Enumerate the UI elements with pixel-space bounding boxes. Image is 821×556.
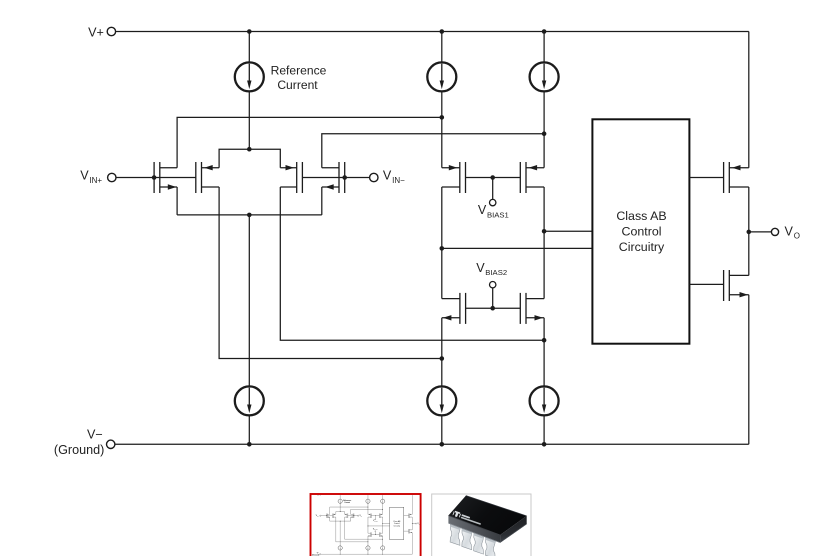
svg-text:Circuitry: Circuitry [619, 240, 665, 254]
wire M9 drain to output node to M10 drain [748, 187, 750, 275]
node M4 drain joins right column [542, 131, 547, 136]
wire left column M7 source to I3 [441, 318, 443, 387]
wire M4 source down [321, 187, 323, 215]
wire M1 drain up and right to left column [177, 117, 442, 167]
svg-text:V+: V+ [88, 25, 104, 39]
node M2 drain joins left column [440, 356, 445, 361]
junction V- rail / tail source [247, 442, 252, 447]
label VIN- [383, 169, 405, 185]
wire I4 to V- rail [543, 415, 545, 444]
transistor M1 input NMOS (VIN+) [154, 162, 177, 193]
node PMOS tail / reference current [247, 147, 252, 152]
wire reference current source to input tail node [248, 91, 250, 149]
current source I3 [427, 386, 456, 415]
wire output node to VO terminal [749, 231, 772, 233]
svg-text:V: V [476, 261, 485, 275]
svg-text:Current: Current [277, 78, 318, 92]
svg-text:V: V [785, 225, 794, 239]
node VBIAS1 [490, 175, 495, 180]
terminal VO [771, 228, 778, 235]
block class AB control circuitry [592, 119, 689, 343]
wire V+ rail to I1 [441, 32, 443, 63]
current source reference [235, 62, 264, 91]
IC body front face [448, 516, 500, 543]
wire left column M5 drain to M7 drain [441, 187, 443, 299]
junction V- rail / I4 [542, 442, 547, 447]
transistor M4 input NMOS (VIN-) [322, 162, 345, 193]
node NMOS tail [247, 213, 252, 218]
wire NMOS pair tail line [177, 214, 322, 216]
wire VBIAS1 stub [492, 178, 494, 200]
junction top rail / current source I1 [440, 29, 445, 34]
current source I4 [530, 386, 559, 415]
terminal V- [107, 440, 115, 448]
junction top rail / reference current [247, 29, 252, 34]
label VO [785, 225, 800, 241]
wire VIN+ to gates of M1 M2 [116, 177, 196, 179]
transistor M5 cascode PMOS left [442, 162, 466, 193]
svg-text:V: V [80, 169, 89, 183]
wire tail current source to V- rail [248, 415, 250, 444]
transistor M7 cascode NMOS left [442, 293, 466, 324]
wire right column to class AB box [544, 230, 592, 232]
wire output NMOS source drop to V- rail [748, 295, 750, 445]
junction V- rail / I3 [440, 442, 445, 447]
wire VBIAS2 stub [492, 288, 494, 308]
svg-text:O: O [794, 232, 800, 241]
junction VIN+ gate node [152, 175, 157, 180]
transistor M2 input PMOS (VIN+) [196, 162, 219, 193]
svg-text:Class AB: Class AB [616, 209, 666, 223]
svg-text:BIAS2: BIAS2 [485, 268, 507, 277]
current source tail (input stage) [235, 386, 264, 415]
svg-text:IN+: IN+ [89, 176, 102, 185]
wire right column M6 drain to M8 drain [543, 187, 545, 299]
IC body top face [448, 496, 526, 535]
terminal VBIAS1 [490, 199, 496, 205]
svg-text:V−: V− [87, 428, 103, 442]
transistor M6 cascode PMOS right [520, 162, 544, 193]
junction VIN- gate node [342, 175, 347, 180]
svg-text:BIAS1: BIAS1 [487, 210, 509, 219]
wire NMOS tail down to tail current source [248, 215, 250, 387]
transistor M10 output NMOS [724, 270, 749, 301]
wire I3 to V- rail [441, 415, 443, 444]
thumbnail 2: IC package photo [432, 494, 531, 556]
terminal V+ [107, 27, 115, 35]
wire M3 drain down and right to right column [280, 187, 544, 340]
terminal VIN- [370, 173, 378, 181]
IC body right face [500, 516, 527, 543]
wire right column M8 source to I4 [543, 318, 545, 387]
node M1 drain joins left column [440, 115, 445, 120]
wire I2 down right cascode column [543, 91, 545, 167]
current source I2 [530, 62, 559, 91]
transistor M9 output PMOS [724, 162, 749, 193]
transistor M3 input PMOS (VIN-) [280, 162, 302, 193]
wire VIN- to gates of M3 M4 [302, 177, 369, 179]
wire V- rail [115, 443, 749, 445]
transistor M8 cascode NMOS right [520, 293, 544, 324]
wire M2 drain down and right to left column [219, 187, 442, 359]
wire top rail right drop to output PMOS source [748, 32, 750, 168]
TI logo on package [452, 510, 482, 525]
svg-text:Control: Control [622, 224, 662, 238]
wire PMOS pair tail [219, 149, 280, 168]
wire V+ rail to reference current source [248, 32, 250, 63]
svg-text:(Ground): (Ground) [54, 443, 104, 457]
label VBIAS1 [478, 203, 509, 219]
wire VBIAS2 gate bus [466, 307, 521, 309]
wire M1 source down [176, 187, 178, 215]
label VIN+ [80, 169, 102, 185]
wire I1 down left cascode column [441, 91, 443, 167]
wire left column to class AB box [442, 247, 593, 249]
wire VBIAS1 gate bus [466, 177, 521, 179]
node VBIAS2 [490, 306, 495, 311]
node M3 drain joins right column [542, 338, 547, 343]
svg-text:Reference: Reference [271, 64, 327, 78]
svg-text:V: V [383, 169, 392, 183]
wire top V+ rail [116, 31, 749, 33]
IC leads [450, 524, 460, 545]
terminal VIN+ [108, 173, 116, 181]
node output [747, 230, 752, 235]
current source I1 [427, 62, 456, 91]
wire M4 drain up and right to right column [322, 134, 544, 168]
thumbnail 1: selected mini schematic [312, 494, 420, 556]
wire V+ rail to I2 [543, 32, 545, 63]
wire class AB to M10 gate [689, 283, 723, 285]
svg-text:V: V [478, 203, 487, 217]
label VBIAS2 [476, 261, 507, 277]
node right column to class AB [542, 229, 547, 234]
node left column to class AB [440, 246, 445, 251]
wire class AB to M9 gate [689, 177, 723, 179]
svg-text:IN−: IN− [392, 176, 405, 185]
junction top rail / current source I2 [542, 29, 547, 34]
terminal VBIAS2 [490, 282, 496, 288]
